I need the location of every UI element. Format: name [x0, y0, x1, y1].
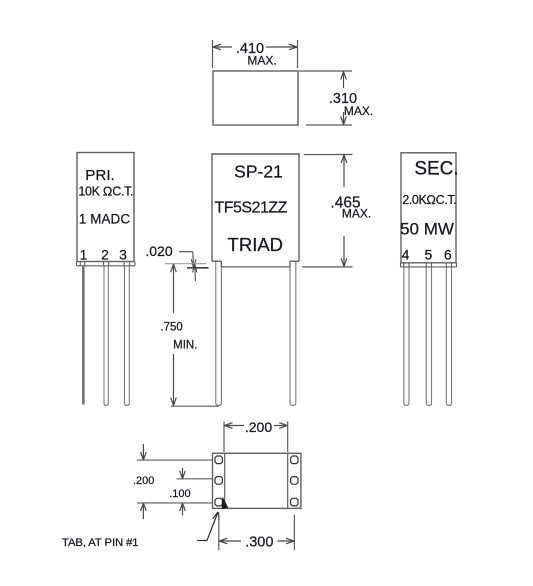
- tab marker at pin 1: [222, 497, 229, 510]
- svg-text:1 MADC: 1 MADC: [79, 212, 130, 227]
- pad pin 1 bottom left: [215, 498, 222, 506]
- dimension .410 arrows: [213, 44, 297, 50]
- dimension .310 arrows: [341, 72, 347, 125]
- svg-text:6: 6: [444, 247, 452, 263]
- dimension .750 line: [171, 264, 177, 405]
- svg-text:.200: .200: [245, 419, 272, 435]
- dimension .100 arrows: [180, 468, 186, 516]
- pin 1 lead: [82, 266, 85, 405]
- dimension .200 horizontal label: [245, 419, 272, 435]
- dimension .020 leader and arrows: [179, 252, 197, 281]
- svg-text:.200: .200: [133, 475, 154, 487]
- svg-text:SEC.: SEC.: [414, 159, 458, 180]
- svg-text:PRI.: PRI.: [85, 167, 115, 184]
- svg-text:1: 1: [80, 247, 88, 263]
- pin 6 lead: [446, 267, 451, 406]
- dimension .410 label: [236, 41, 277, 68]
- top view body outline: [213, 71, 298, 125]
- bottom view row extension lines: [137, 460, 213, 503]
- dimension .465 extension lines: [302, 155, 353, 267]
- pin numbers 4 5 6: [402, 247, 452, 263]
- dimension .300 arrows: [219, 538, 294, 544]
- svg-text:10K ΩC.T.: 10K ΩC.T.: [78, 185, 133, 199]
- svg-text:.020: .020: [145, 243, 172, 259]
- dimension .100 label: [169, 488, 190, 500]
- 50 MW label: [400, 220, 454, 239]
- dimension .200 vertical arrows: [141, 444, 147, 519]
- svg-text:2.0KΩC.T.: 2.0KΩC.T.: [402, 193, 456, 207]
- dimension .410 extension lines: [213, 40, 298, 68]
- pad pin 4 top right: [291, 456, 298, 464]
- svg-text:4: 4: [402, 247, 410, 263]
- svg-text:3: 3: [119, 247, 127, 263]
- svg-text:5: 5: [425, 247, 433, 263]
- dimension .465 label: [330, 195, 371, 221]
- dimension .020 extension lines: [165, 264, 209, 268]
- secondary winding box: [401, 153, 456, 263]
- svg-text:TAB, AT PIN #1: TAB, AT PIN #1: [62, 537, 138, 549]
- pad pin 6 bottom right: [291, 498, 298, 506]
- SEC. label: [414, 159, 458, 180]
- dimension .200 vertical label: [133, 475, 154, 487]
- svg-text:2: 2: [101, 247, 109, 263]
- svg-text:.100: .100: [169, 488, 190, 500]
- primary winding box: [77, 153, 134, 262]
- dimension .200 horizontal ticks: [224, 422, 288, 453]
- svg-text:TRIAD: TRIAD: [228, 234, 284, 255]
- dimension .750 label: [160, 322, 197, 352]
- dimension .020 label: [145, 243, 172, 259]
- dimension .465 arrows: [341, 155, 347, 266]
- svg-text:.300: .300: [245, 535, 273, 551]
- dimension .300 ticks: [219, 513, 295, 551]
- 10K ohm C.T. label: [78, 185, 133, 199]
- dimension .200 horizontal arrows: [225, 423, 288, 429]
- PRI. label: [85, 167, 115, 184]
- pad pin 3 top left: [215, 456, 222, 464]
- svg-text:MAX.: MAX.: [342, 207, 371, 221]
- pin 3 lead: [125, 266, 130, 406]
- svg-text:MIN.: MIN.: [173, 340, 197, 352]
- svg-text:50 MW: 50 MW: [400, 220, 454, 239]
- 1 MADC label: [79, 212, 130, 227]
- TAB AT PIN 1 label: [62, 537, 138, 549]
- transformer body side view box: [212, 154, 299, 267]
- 2.0K ohm C.T. label: [402, 193, 456, 207]
- svg-text:MAX.: MAX.: [344, 104, 373, 118]
- svg-text:SP-21: SP-21: [234, 162, 283, 182]
- SP-21 label: [234, 162, 283, 182]
- pin 4 lead: [404, 267, 409, 406]
- dimension .310 extension lines: [299, 71, 352, 125]
- pad pin 5 middle right: [291, 477, 298, 485]
- side view left pin: [216, 261, 222, 406]
- tab leader line: [197, 512, 219, 541]
- pin numbers 1 2 3: [80, 247, 128, 263]
- pad pin 2 middle left: [215, 477, 222, 485]
- TF5S21ZZ label: [214, 199, 287, 216]
- svg-text:MAX.: MAX.: [247, 54, 276, 68]
- bottom view pin row separators: [225, 453, 288, 508]
- secondary base plate: [401, 263, 457, 267]
- dimension .750 bottom extension line: [171, 405, 219, 407]
- dimension .300 label: [245, 535, 273, 551]
- TRIAD label: [228, 234, 284, 255]
- svg-text:.750: .750: [160, 322, 182, 334]
- dimension .310 label: [329, 91, 373, 118]
- pin 2 lead: [104, 266, 108, 406]
- svg-text:TF5S21ZZ: TF5S21ZZ: [214, 199, 287, 216]
- bottom view outline: [213, 453, 301, 508]
- primary base plate: [76, 262, 135, 266]
- side view right pin: [290, 261, 296, 406]
- pin 5 lead: [426, 267, 431, 406]
